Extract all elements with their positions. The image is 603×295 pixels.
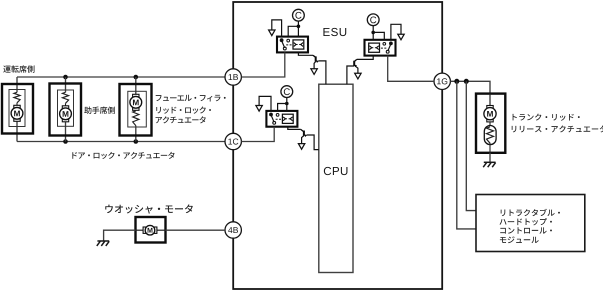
label: 運転席側: [3, 65, 34, 72]
junction dots on buses: [63, 75, 68, 80]
door lock actuator (driver side): [16, 77, 18, 92]
trunk lid release actuator: [476, 94, 505, 153]
Q3 emitter to connector arrow: [302, 136, 304, 144]
wire: C branch to NO contact: [288, 26, 298, 36]
wire: washer motor to ground: [104, 230, 136, 241]
label: アクチュエータ: [156, 116, 206, 123]
connector 4B: [225, 222, 241, 238]
Q3 base to CPU: [307, 135, 319, 150]
label: リトラクタブル・: [501, 209, 560, 216]
label: 助手席側: [84, 107, 115, 114]
junction dots right of 1G: [454, 79, 459, 84]
wire: C branch to NO contact: [278, 104, 287, 111]
ground (washer motor): [97, 240, 109, 242]
in-page connector arrow (K3 common feed): [259, 96, 271, 111]
relay K2: [365, 40, 396, 56]
wire: K3 switch out to 1C: [241, 127, 274, 142]
wire: bottom bus to 1C: [17, 141, 225, 143]
label: ドア・ロック・アクチュエータ: [72, 152, 174, 159]
in-page connector arrow (K2 common feed): [391, 24, 401, 40]
label: トランク・リッド・: [513, 114, 580, 121]
label: ウオッシャ・モータ: [105, 204, 193, 213]
relay K3: [266, 111, 297, 127]
door lock actuator (passenger side): [65, 77, 67, 92]
solenoid capsule: [484, 126, 496, 145]
Q1 emitter to connector arrow: [314, 62, 316, 69]
wire: top bus to 1B: [17, 76, 225, 78]
label: フューエル・フィラ・: [156, 95, 226, 102]
label: モジュール: [500, 236, 539, 243]
CPU box: [319, 84, 353, 272]
relay K2 circuit-breaker C: [372, 26, 374, 40]
Q2 base to CPU: [347, 66, 354, 84]
label: リリース・アクチュエータ: [512, 125, 603, 132]
transistor Q1: [313, 55, 316, 57]
wire: junction to hardtop module (lower): [457, 81, 476, 229]
wire: washer motor to 4B: [166, 229, 226, 231]
in-page connector arrow (K1 common feed): [272, 20, 282, 37]
connector 1B: [225, 69, 241, 85]
wire: K1 switch out to 1B: [241, 52, 284, 77]
wire: junction to hardtop module (upper): [466, 81, 476, 210]
relay K3 circuit-breaker C: [286, 97, 288, 111]
label: コントロール・: [500, 227, 552, 234]
label: ハードトップ・: [500, 218, 552, 225]
label: リッド・ロック・: [156, 107, 211, 114]
fuel filler lid lock actuator: [135, 77, 137, 97]
wire: K3 coil to Q3: [288, 127, 301, 130]
wire: K2 coil to Q2: [357, 56, 373, 60]
wire: K2 switch out to 1G: [388, 56, 434, 82]
relay K1 circuit-breaker C: [297, 21, 299, 37]
wire: C branch to NO contact: [373, 32, 384, 39]
connector 1G: [434, 73, 450, 89]
retractable hardtop control module box: [476, 195, 585, 252]
transistor Q2: [354, 59, 357, 61]
ground (trunk actuator): [484, 161, 496, 163]
connector 1C: [225, 133, 241, 149]
relay K1: [277, 37, 308, 53]
Q2 emitter to connector arrow: [356, 66, 358, 73]
wire: 1G to trunk actuator: [450, 81, 490, 93]
wire: K1 coil to Q1: [298, 52, 313, 55]
transistor Q3: [301, 129, 304, 131]
ESU box: [233, 2, 442, 289]
